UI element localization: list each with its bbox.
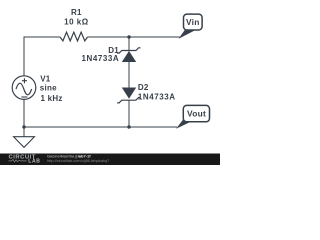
svg-text:1 kHz: 1 kHz: [41, 94, 63, 103]
ground lead: [23, 127, 25, 137]
net flag Vout box: [183, 105, 209, 121]
ground symbol: [14, 137, 35, 148]
svg-text:Vout: Vout: [187, 109, 206, 119]
diode D2 triangle: [122, 88, 136, 99]
svg-text:1N4733A: 1N4733A: [138, 92, 176, 101]
svg-text:sine: sine: [40, 83, 57, 92]
watermark bar: [0, 154, 220, 166]
wire V1 bottom to ground node: [23, 99, 25, 127]
logo wave trace: [9, 159, 27, 162]
net flag Vout tail: [176, 119, 197, 129]
wire D2 cathode to bottom rail: [128, 100, 130, 127]
wire D1 anode to D2 anode: [128, 62, 130, 88]
svg-text:10 kΩ: 10 kΩ: [64, 18, 89, 27]
V1 plus sign: [22, 78, 27, 83]
bottom rail wire: [24, 126, 177, 128]
net flag Vin tail: [179, 29, 199, 39]
net flag Vin box: [184, 14, 203, 30]
V1 minus sign: [21, 96, 27, 98]
diode D1 triangle: [122, 51, 136, 62]
svg-text:V1: V1: [40, 74, 51, 83]
wire top-left: V1 top up and right to resistor: [24, 37, 60, 76]
svg-text:http://circuitlab.com/c/j86.br: http://circuitlab.com/c/j86.brbpkahq7: [47, 158, 109, 163]
node junction dot top: [127, 35, 130, 38]
wire resistor to Vin flag: [88, 36, 181, 38]
diode D2 zener bar: [117, 98, 140, 103]
diode D1 zener bar: [117, 48, 140, 53]
svg-text:LAB: LAB: [28, 159, 40, 165]
junction dot ground node: [22, 125, 25, 128]
wire node to D1 cathode: [128, 37, 130, 51]
voltage source V1 circle: [12, 76, 36, 100]
resistor R1: [60, 32, 88, 41]
svg-text:R1: R1: [71, 8, 82, 17]
svg-text:Vin: Vin: [186, 17, 200, 27]
svg-text:1N4733A: 1N4733A: [82, 54, 120, 63]
svg-text:D2: D2: [138, 83, 149, 92]
junction dot D2 bottom: [127, 125, 130, 128]
V1 sine wave: [16, 83, 32, 95]
